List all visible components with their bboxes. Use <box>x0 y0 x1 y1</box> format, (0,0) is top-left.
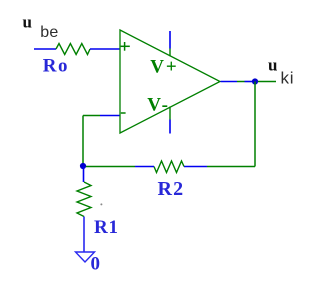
label u_ki <box>268 55 294 87</box>
stray dot <box>100 203 102 205</box>
wire minus horizontal green <box>83 115 100 117</box>
op-amp minus sign <box>121 112 126 114</box>
node junction output <box>252 78 258 84</box>
op-amp minus input pin <box>100 115 120 117</box>
wire right vertical <box>254 82 256 167</box>
wire R2 right lead <box>184 166 207 168</box>
svg-text:R1: R1 <box>94 217 119 238</box>
svg-text:R2: R2 <box>158 178 185 200</box>
resistor Ro <box>56 44 90 55</box>
power pin V+ wire <box>169 31 171 49</box>
svg-text:Ro: Ro <box>43 56 69 77</box>
op-amp U1 triangle <box>120 30 220 133</box>
wire input left <box>34 48 56 50</box>
op-amp output pin <box>221 81 238 83</box>
wire R1 bottom lead <box>83 217 85 253</box>
wire feedback right <box>207 166 255 168</box>
resistor R1 <box>77 182 91 217</box>
wire output middle <box>237 81 245 83</box>
power pin V- stub <box>169 107 171 120</box>
op-amp plus sign <box>121 42 130 51</box>
svg-text:u: u <box>23 13 32 32</box>
power pin V+ stub <box>169 49 171 57</box>
wire output to node <box>245 81 253 83</box>
svg-text:V-: V- <box>147 95 170 116</box>
wire feedback left <box>83 166 135 168</box>
wire Ro to op-amp plus input <box>90 48 120 50</box>
svg-text:be: be <box>40 24 58 41</box>
svg-text:ki: ki <box>281 69 295 88</box>
resistor R2 <box>154 161 184 173</box>
wire left vertical to minus input <box>82 116 84 167</box>
wire node to u_ki <box>258 81 276 83</box>
node junction feedback <box>80 163 86 169</box>
wire R1 top lead <box>83 167 85 183</box>
svg-text:0: 0 <box>91 254 101 275</box>
power pin V- wire <box>169 120 171 134</box>
wire R2 left lead <box>135 166 154 168</box>
ground symbol <box>76 252 95 262</box>
label u_be <box>23 13 59 42</box>
svg-text:u: u <box>268 55 277 74</box>
svg-text:V+: V+ <box>150 56 179 77</box>
